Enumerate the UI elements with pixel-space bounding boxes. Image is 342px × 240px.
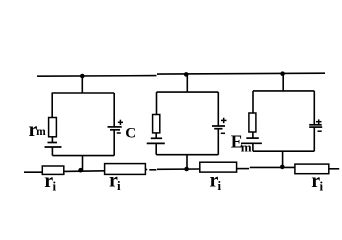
svg-text:m: m [241,140,252,155]
svg-text:C: C [125,126,136,142]
svg-text:i: i [117,178,121,193]
svg-text:i: i [53,179,57,194]
svg-text:m: m [36,126,46,138]
svg-text:i: i [320,179,324,194]
svg-text:i: i [218,178,222,193]
